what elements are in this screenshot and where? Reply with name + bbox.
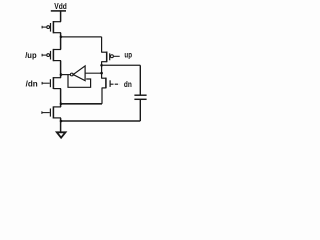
wire M5 drain down through node (101, 62, 103, 78)
wire node C to dn source (61, 103, 102, 105)
wire dn source drop (101, 88, 103, 104)
wire M3 source down (60, 89, 62, 107)
node IN junction dot (100, 72, 103, 75)
svg-text:Vdd: Vdd (54, 2, 67, 11)
wire M2 drain down (60, 61, 62, 78)
op-amp U1 (keeper inverter, pointing left) (70, 66, 85, 81)
transistor M3 (NMOS, gate /dn) (42, 77, 61, 89)
transistor M1 (PMOS, source to Vdd) (42, 21, 61, 33)
svg-text:/up: /up (25, 51, 37, 60)
capacitor C1 (134, 95, 146, 99)
node A junction dot (60, 36, 63, 39)
wire right branch drop (101, 37, 103, 52)
wire inverter output (61, 74, 70, 76)
wire capacitor bottom drop (139, 99, 141, 121)
wire node A to right branch (61, 36, 102, 38)
node C junction dot (60, 103, 63, 106)
node B junction dot (60, 73, 63, 76)
svg-text:/dn: /dn (26, 80, 38, 89)
ground (57, 132, 66, 137)
node D junction dot (60, 120, 63, 123)
Vdd rail (51, 10, 66, 12)
wire feedback loop (68, 75, 91, 88)
transistor M4 (NMOS, bottom) (42, 106, 61, 118)
wire Vdd stem (60, 11, 62, 22)
wire inverter input (85, 72, 102, 74)
transistor M5 (PMOS, gate up, right branch) (101, 52, 120, 63)
node OUT junction dot (100, 64, 103, 67)
wire out node to capacitor (102, 64, 141, 66)
wire bottom return (61, 120, 141, 122)
transistor M6 (NMOS, gate dn, right branch) (101, 78, 119, 89)
wire M1 drain down (60, 33, 62, 50)
wire capacitor top drop (139, 65, 141, 95)
wire M4 source down (60, 118, 62, 132)
svg-text:up: up (124, 51, 132, 60)
transistor M2 (PMOS, gate /up) (42, 49, 61, 61)
svg-text:dn: dn (124, 80, 132, 89)
